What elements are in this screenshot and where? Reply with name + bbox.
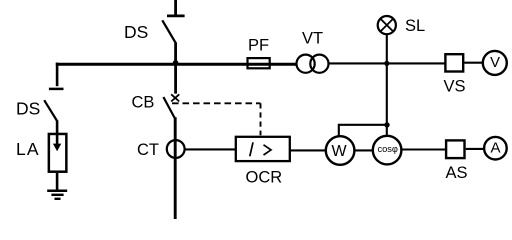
label VT: [302, 30, 323, 48]
svg-text:V: V: [490, 55, 500, 71]
dashed trip link: CB to OCR (horizontal): [172, 102, 261, 104]
wire: junction down to meters: [386, 63, 388, 135]
label CB: [132, 93, 155, 111]
power fuse PF: [248, 58, 270, 68]
wattmeter W: [326, 136, 355, 165]
wire: main bus (thick): [56, 63, 296, 66]
wire: CT secondary to OCR: [185, 148, 237, 150]
label PF: [248, 36, 269, 54]
label SL: [405, 17, 425, 35]
disconnector DS1 blade: [162, 20, 176, 44]
ammeter A: [484, 137, 507, 160]
svg-text:W: W: [331, 143, 347, 160]
label LA: [16, 139, 40, 159]
wire: CB through CT to load (bottom): [174, 117, 177, 219]
wire: DS1 to bus: [174, 43, 177, 64]
overcurrent relay OCR symbol I>: [250, 142, 271, 156]
ammeter selector switch AS box: [446, 140, 464, 158]
svg-text:VS: VS: [444, 77, 466, 95]
svg-text:PF: PF: [248, 36, 269, 54]
svg-text:CT: CT: [137, 141, 159, 159]
wire: bus to circuit breaker CB: [174, 63, 177, 94]
wire: cos-phi to ammeter switch AS: [401, 148, 445, 150]
wire: left branch drop from bus: [56, 63, 59, 87]
label AS: [446, 164, 468, 182]
svg-text:SL: SL: [405, 17, 425, 35]
svg-text:LA: LA: [16, 139, 40, 159]
wire: LA to ground: [56, 173, 59, 191]
svg-text:DS: DS: [124, 22, 148, 42]
label CT: [137, 141, 159, 159]
circuit breaker CB blade: [163, 97, 174, 118]
wire: incoming feeder (top): [174, 0, 177, 15]
dashed trip link: down to OCR (vertical): [260, 103, 262, 135]
power factor meter cos-phi: [373, 136, 402, 165]
svg-text:AS: AS: [446, 164, 468, 182]
wire: DS2 to arrester LA: [56, 120, 59, 134]
circuit breaker CB fixed contact (x mark): [171, 94, 179, 101]
label OCR: [246, 169, 283, 187]
label VS: [444, 77, 466, 95]
voltage selector switch VS box: [445, 54, 463, 71]
lightning arrester LA body: [49, 134, 67, 172]
label DS (top disconnector): [124, 22, 148, 42]
wire: AS to ammeter A: [466, 148, 484, 150]
voltage transformer VT primary winding: [297, 55, 315, 73]
voltmeter V: [483, 51, 507, 75]
wire: elbow to wattmeter W: [339, 125, 387, 136]
disconnector DS2 blade: [44, 100, 57, 121]
lightning arrester LA arrow: [53, 133, 61, 151]
wire: OCR to wattmeter W: [290, 149, 326, 151]
svg-text:cosφ: cosφ: [377, 144, 398, 154]
node: junction at SL tap: [384, 61, 389, 66]
svg-text:OCR: OCR: [246, 169, 283, 187]
svg-text:A: A: [490, 139, 500, 156]
disconnector DS1 fixed contact bar: [167, 15, 185, 18]
node: junction above cos-phi: [384, 122, 389, 127]
label DS (left disconnector): [16, 98, 40, 118]
voltage transformer VT secondary winding: [310, 55, 328, 73]
disconnector DS2 fixed contact bar: [49, 88, 64, 91]
node: bus junction at feeder: [173, 60, 179, 66]
svg-text:DS: DS: [16, 98, 40, 118]
wire: W to cos-phi meter: [354, 149, 373, 151]
overcurrent relay OCR box: [236, 137, 290, 161]
current transformer CT: [167, 140, 185, 158]
wire: VT secondary rail to VS: [328, 62, 445, 64]
svg-text:VT: VT: [302, 30, 323, 48]
signal lamp SL: [378, 16, 396, 34]
wire: lamp SL drop: [386, 35, 388, 65]
ground: [47, 191, 67, 199]
svg-text:CB: CB: [132, 93, 155, 111]
wire: VS to voltmeter V: [464, 62, 484, 64]
